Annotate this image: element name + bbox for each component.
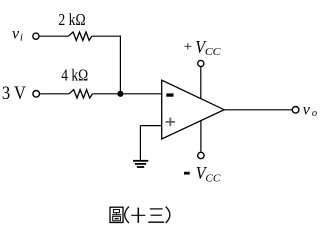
ground (133, 161, 148, 167)
caption figure 13 glyph tu (110, 207, 123, 222)
svg-text:v: v (12, 25, 20, 42)
terminal 3V (33, 91, 40, 98)
wire (40, 93, 69, 95)
terminal +VCC (198, 60, 204, 66)
caption paren close (166, 207, 170, 223)
wire (200, 67, 202, 99)
junction (117, 91, 123, 97)
terminal vi (33, 33, 39, 39)
caption paren open (125, 207, 129, 223)
wire (200, 121, 202, 153)
caption glyph shi (131, 208, 145, 223)
op-amp U1 (162, 80, 225, 139)
caption glyph san (148, 209, 164, 222)
node vi label (12, 25, 23, 43)
label -VCC (184, 163, 221, 184)
resistor 2k (68, 32, 91, 40)
svg-text:2 kΩ: 2 kΩ (58, 10, 85, 29)
terminal vo (292, 107, 299, 114)
svg-text:o: o (312, 108, 317, 119)
svg-text:3 V: 3 V (2, 83, 26, 104)
wire (140, 125, 161, 127)
svg-text:i: i (20, 32, 23, 44)
resistor 4k (69, 90, 93, 98)
wire (139, 126, 141, 161)
wire (224, 109, 292, 111)
pin minus marker (166, 93, 173, 96)
wire (93, 93, 162, 95)
node vo label (303, 101, 317, 119)
label +VCC (184, 37, 222, 58)
pin plus marker (166, 118, 175, 127)
svg-text:4 kΩ: 4 kΩ (61, 65, 88, 84)
svg-text:v: v (303, 101, 311, 118)
wire (119, 36, 121, 94)
svg-text:CC: CC (205, 47, 222, 58)
terminal -VCC (198, 152, 204, 158)
svg-text:+: + (184, 39, 192, 55)
svg-text:CC: CC (205, 173, 221, 184)
wire (92, 35, 121, 37)
wire (39, 35, 68, 37)
